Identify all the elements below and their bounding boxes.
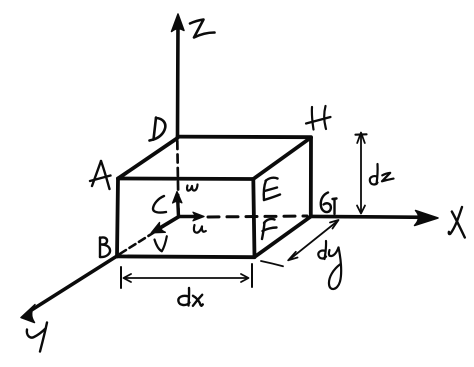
label u [194, 225, 206, 233]
box edge A-E [118, 177, 253, 181]
Y axis label [27, 323, 47, 352]
dimension dx arrow [124, 274, 249, 282]
vertex label H [306, 106, 331, 130]
vertex label A [90, 161, 111, 189]
velocity arrow v [151, 217, 179, 233]
box edge F-G [255, 217, 311, 258]
Z axis [172, 14, 185, 136]
Y axis [21, 256, 117, 323]
hidden edge C-G dashed [208, 216, 307, 217]
box edge E-F [253, 179, 254, 257]
vertex label D [150, 118, 166, 141]
box edge H-G [309, 138, 313, 217]
vertex label E [264, 178, 280, 200]
hidden edge B-C dashed [120, 220, 174, 254]
X axis [312, 211, 439, 226]
box edge A-B [117, 179, 118, 257]
velocity arrow w [173, 192, 182, 217]
dimension label dz [370, 164, 394, 184]
label w [187, 185, 198, 191]
X axis label [449, 207, 465, 238]
dimension label dy [318, 241, 341, 289]
velocity arrow u [179, 212, 205, 221]
hidden edge D-C dashed [177, 141, 178, 214]
dimension dz arrow [356, 133, 367, 214]
dimension label dx [178, 288, 202, 306]
dimension dy arrow [288, 220, 338, 260]
origin label C [153, 196, 166, 213]
dimension dy extension line [261, 261, 283, 266]
box edge D-H [178, 135, 312, 139]
dimension dx left tick [120, 267, 122, 288]
vertex label F [262, 219, 277, 239]
box edge E-H [253, 138, 311, 180]
label v [155, 236, 167, 251]
dimension dx right tick [251, 264, 253, 287]
box edge B-F [117, 254, 255, 259]
Z axis label [190, 20, 215, 38]
vertex label G [321, 193, 337, 215]
box edge A-D [118, 138, 178, 179]
vertex label B [100, 237, 110, 257]
